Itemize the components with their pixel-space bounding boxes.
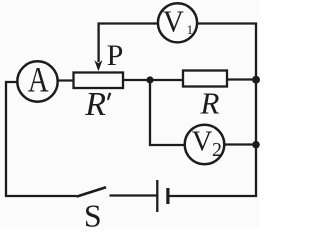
svg-text:V: V [192,126,213,157]
svg-text:R: R [84,86,106,123]
svg-text:1: 1 [187,22,194,37]
svg-text:A: A [28,59,49,99]
svg-text:2: 2 [212,139,222,161]
svg-text:R: R [200,86,220,121]
svg-text:P: P [107,39,124,72]
svg-text:V: V [163,5,184,39]
svg-text:S: S [84,198,102,229]
